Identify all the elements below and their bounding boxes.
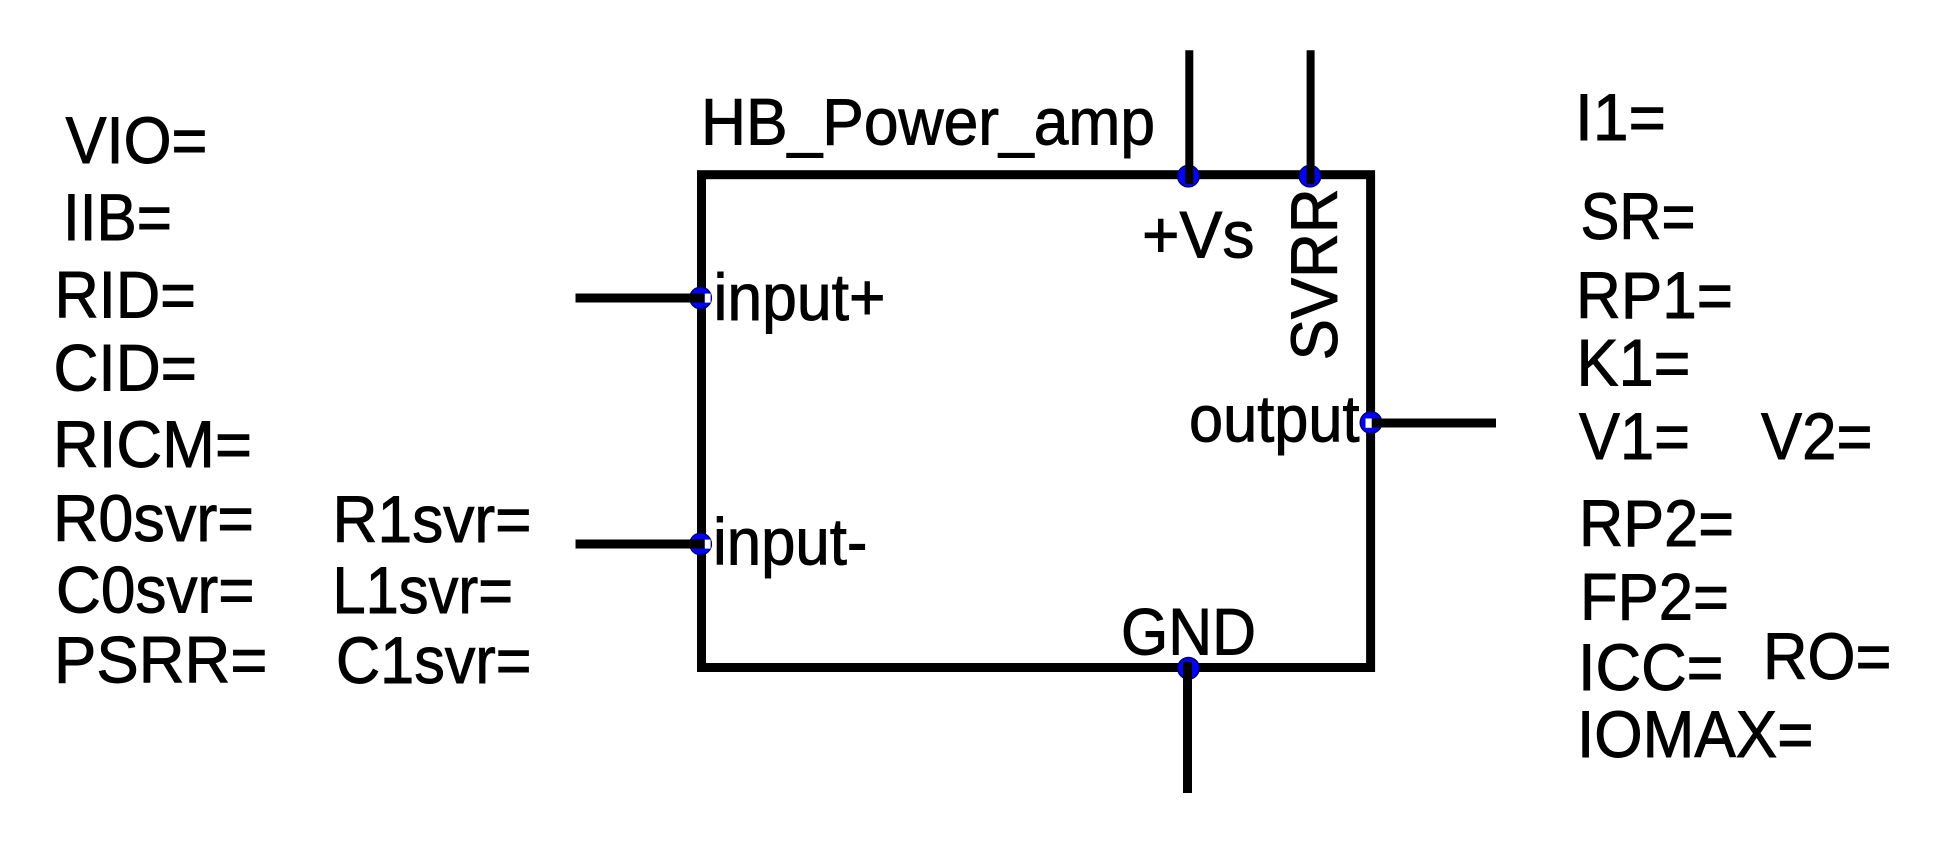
svg-text:PSRR=: PSRR= — [54, 623, 268, 697]
svg-text:C1svr=: C1svr= — [336, 623, 532, 697]
svg-text:V1=: V1= — [1579, 399, 1690, 473]
svg-text:IIB=: IIB= — [63, 180, 172, 254]
svg-text:IOMAX=: IOMAX= — [1577, 697, 1814, 771]
svg-text:input+: input+ — [714, 260, 886, 334]
svg-text:RID=: RID= — [55, 258, 197, 332]
svg-text:SR=: SR= — [1581, 179, 1696, 253]
svg-text:K1=: K1= — [1577, 325, 1691, 399]
svg-text:+Vs: +Vs — [1142, 198, 1255, 272]
svg-text:ICC=: ICC= — [1578, 630, 1724, 704]
svg-text:GND: GND — [1121, 595, 1256, 669]
svg-text:C0svr=: C0svr= — [56, 553, 255, 627]
svg-text:RO=: RO= — [1763, 619, 1892, 693]
svg-text:input-: input- — [713, 505, 868, 579]
svg-text:SVRR: SVRR — [1277, 188, 1351, 360]
svg-text:output: output — [1189, 381, 1360, 455]
svg-text:R0svr=: R0svr= — [53, 481, 254, 555]
svg-text:L1svr=: L1svr= — [333, 553, 514, 627]
svg-text:I1=: I1= — [1575, 80, 1666, 154]
svg-text:CID=: CID= — [54, 331, 198, 405]
svg-text:HB_Power_amp: HB_Power_amp — [701, 85, 1155, 159]
svg-text:RP1=: RP1= — [1576, 258, 1733, 332]
svg-text:R1svr=: R1svr= — [333, 482, 532, 556]
svg-text:RP2=: RP2= — [1579, 486, 1734, 560]
svg-text:V2=: V2= — [1761, 399, 1873, 473]
svg-text:FP2=: FP2= — [1580, 559, 1729, 633]
svg-text:RICM=: RICM= — [53, 407, 252, 481]
svg-text:VIO=: VIO= — [66, 103, 208, 177]
